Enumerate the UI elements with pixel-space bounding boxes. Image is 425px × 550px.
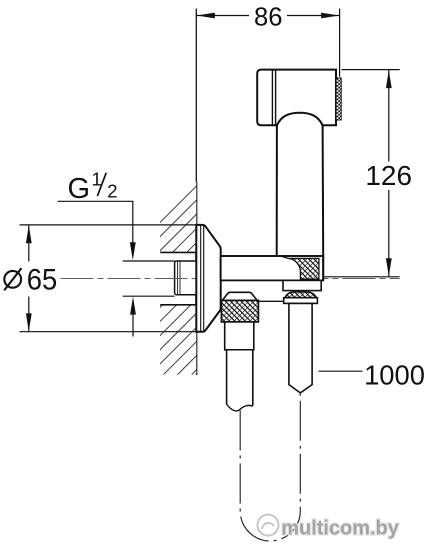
elbow outlet boss under arm [283, 280, 321, 290]
diameter 65 arrowhead top [26, 225, 32, 243]
G 1/2 thread extension line bottom [123, 295, 175, 297]
wall hole top edge [160, 251, 196, 253]
dimension 1000 leader [319, 370, 363, 372]
dimension 126 arrowhead top [386, 70, 392, 88]
G 1/2 leader underline [58, 200, 134, 202]
right hose ferrule [284, 298, 318, 304]
G 1/2 leader vertical with down arrow [132, 201, 134, 243]
dimension 86 extension line right [339, 9, 341, 77]
G 1/2 up arrow below fitting [132, 314, 134, 337]
svg-text:126: 126 [365, 160, 412, 191]
G 1/2 thread extension line top [123, 260, 175, 262]
dimension 126 extension line top [342, 69, 400, 71]
left hose ferrule [225, 322, 254, 350]
svg-text:86: 86 [254, 4, 283, 32]
hose nut cone inside arm (cross hatched) [288, 258, 319, 279]
diameter 65 arrowhead bottom [26, 313, 32, 331]
diameter symbol [4, 271, 21, 288]
escutcheon outline [196, 225, 220, 332]
wall hatching upper section [160, 182, 196, 253]
threaded fitting through wall [175, 261, 198, 295]
svg-text:1000: 1000 [364, 359, 425, 390]
dimension 126 extension line bottom [323, 276, 400, 278]
wall hole bottom edge [160, 304, 196, 306]
dimension 86 extension line left / wall face line [195, 9, 197, 183]
svg-text:G: G [68, 173, 91, 205]
center line horizontal [61, 278, 400, 280]
svg-text:65: 65 [27, 264, 58, 297]
hand shower head body [257, 70, 336, 126]
right hose nut dome (cross hatched) [285, 292, 316, 298]
wall hatching lower section [160, 305, 196, 375]
left outlet dome [222, 292, 257, 300]
left hose tube [227, 350, 253, 406]
spray face strip [336, 78, 341, 120]
dimension 126 line [388, 70, 390, 162]
diameter 65 extension line top [20, 224, 203, 226]
right hose tube [289, 303, 312, 393]
dimension 126 arrowhead bottom [386, 258, 392, 276]
holder arm [221, 256, 324, 280]
connector line between outlets [258, 300, 283, 302]
svg-text:multicom.by: multicom.by [281, 517, 399, 540]
hose loop centerline (1000 mm hose) [240, 393, 300, 541]
head cap separation lines [271, 70, 273, 125]
diameter 65 extension line bottom [20, 331, 205, 333]
left hose break wave [227, 404, 253, 411]
handle bottom / arm top edge [221, 255, 324, 257]
dimension 86 arrowhead right [321, 13, 339, 19]
left hose nut (cross hatched) [221, 300, 258, 322]
dimension 86 line [196, 15, 249, 17]
handle right edge continues to arm bottom [322, 256, 324, 280]
escutcheon flange inner lines [200, 225, 202, 331]
diameter 65 dimension line [28, 225, 30, 262]
dimension 86 arrowhead left [197, 13, 215, 19]
svg-text:2: 2 [107, 180, 117, 201]
watermark logo circle [258, 515, 279, 536]
hand shower handle [277, 125, 324, 256]
